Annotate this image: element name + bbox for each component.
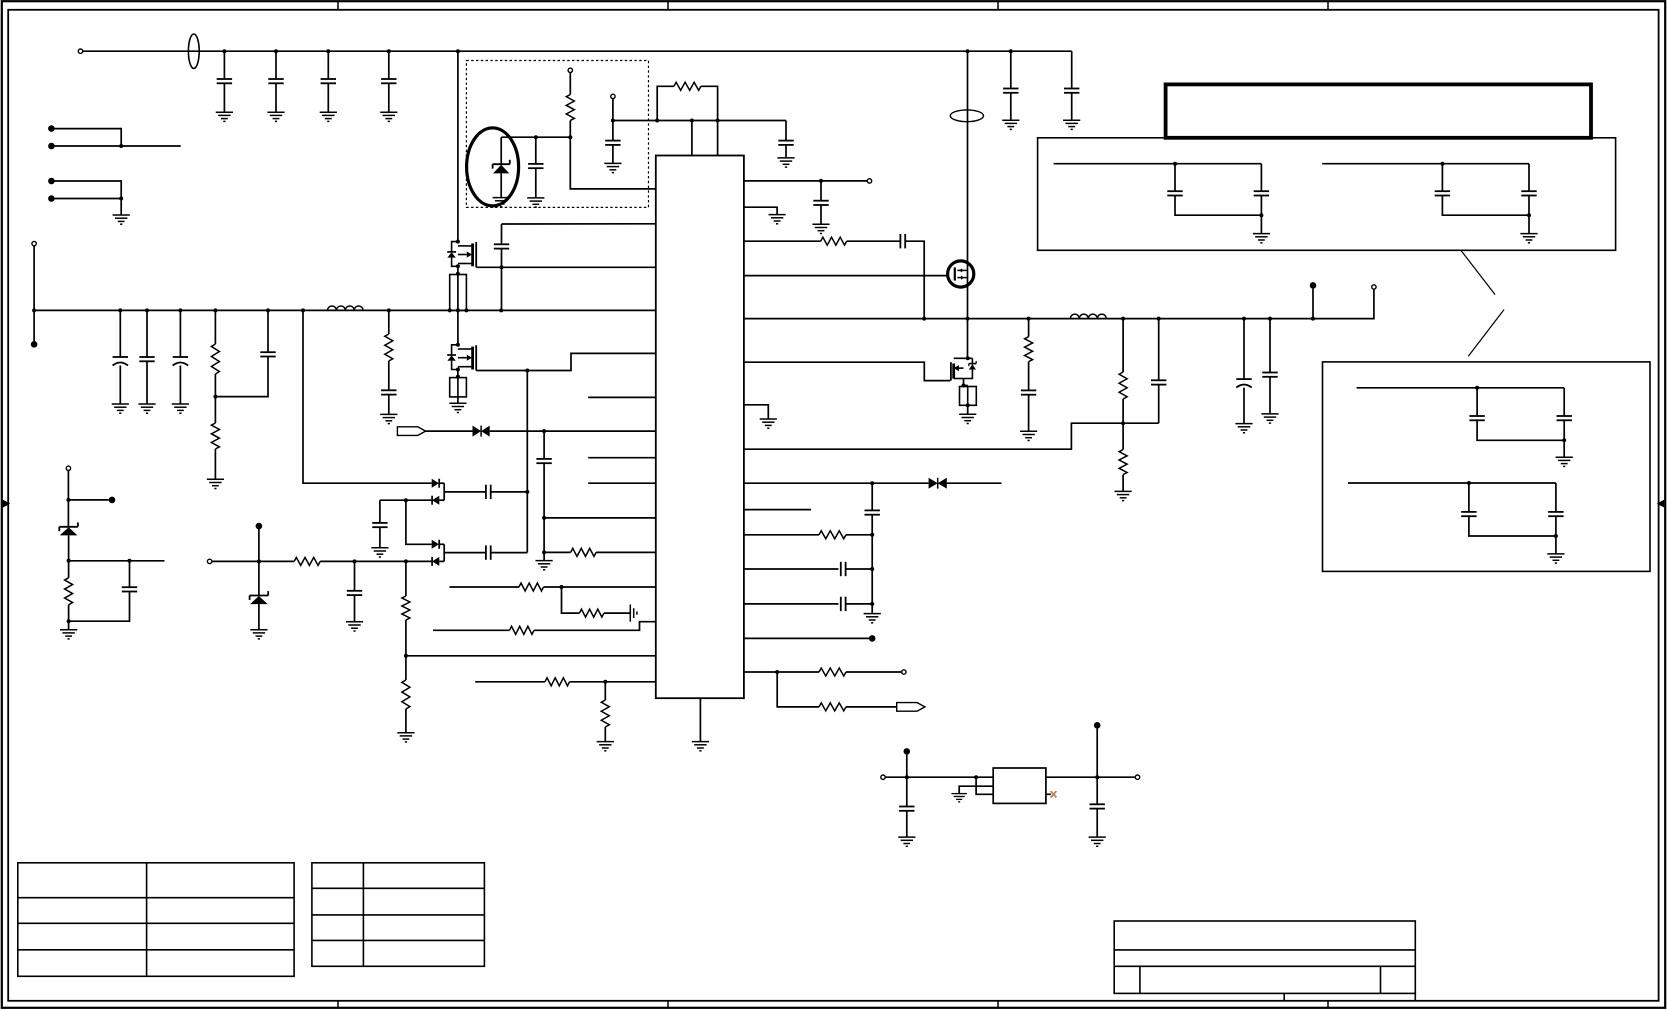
junction xyxy=(1259,213,1263,217)
capacitor C14 xyxy=(486,485,491,499)
wire xyxy=(701,86,718,155)
wire xyxy=(906,811,908,837)
wire xyxy=(604,682,606,700)
resistor R10 xyxy=(65,578,73,605)
ground xyxy=(1002,120,1019,129)
wire xyxy=(491,552,528,554)
wire xyxy=(596,551,656,553)
capacitor C20 xyxy=(605,141,620,145)
wire xyxy=(1348,482,1556,484)
wire xyxy=(1010,51,1012,88)
transistor Q1 body diode xyxy=(447,242,458,267)
diode D3b xyxy=(432,557,439,566)
junction xyxy=(213,308,217,312)
wire xyxy=(847,240,901,242)
junction xyxy=(534,135,538,139)
capacitor C1 xyxy=(217,79,232,83)
wire xyxy=(69,560,165,562)
junction xyxy=(603,680,607,684)
border zone tick (top) xyxy=(667,1,669,10)
capacitor C25 xyxy=(1151,380,1166,384)
resistor R14 xyxy=(579,609,604,617)
junction xyxy=(1121,421,1125,425)
wire xyxy=(439,482,444,484)
ground xyxy=(1235,424,1252,433)
resistor R23 xyxy=(819,531,846,539)
wire xyxy=(68,605,70,630)
wire xyxy=(258,529,260,596)
wire xyxy=(543,431,545,459)
resistor R7 xyxy=(294,557,320,565)
wire xyxy=(1312,289,1314,319)
junction xyxy=(500,265,504,269)
border zone tick (top) xyxy=(997,1,999,10)
wire xyxy=(388,83,390,112)
junction xyxy=(1440,162,1444,166)
junction xyxy=(1527,213,1531,217)
junction xyxy=(1157,317,1161,321)
junction xyxy=(1554,534,1558,538)
wire xyxy=(543,463,545,560)
wire xyxy=(1028,362,1030,391)
wire xyxy=(1122,399,1124,450)
transistor Q2 xyxy=(458,345,476,370)
wire xyxy=(744,603,839,605)
border center arrow (right) xyxy=(1657,500,1664,508)
ground xyxy=(1547,554,1564,563)
wire xyxy=(785,145,787,158)
wire xyxy=(146,310,148,357)
terminal P10 xyxy=(881,775,885,779)
wire xyxy=(544,517,656,519)
wire xyxy=(570,121,656,189)
wire xyxy=(777,672,819,707)
wire xyxy=(1260,196,1262,234)
wire xyxy=(51,145,180,147)
resistor R6 xyxy=(571,548,597,556)
junction xyxy=(966,356,970,360)
inductor L2 xyxy=(1070,314,1106,319)
junction xyxy=(560,585,564,589)
wire xyxy=(490,430,656,432)
wire xyxy=(1028,395,1030,432)
junction xyxy=(404,559,408,563)
capacitor C34 xyxy=(1254,191,1269,195)
wire xyxy=(604,612,630,614)
option box A xyxy=(1038,138,1616,251)
junction xyxy=(456,264,460,268)
wire xyxy=(275,51,277,79)
junction xyxy=(456,343,460,347)
wire xyxy=(905,241,924,318)
wire xyxy=(388,395,390,415)
revision table 1 xyxy=(18,863,294,977)
junction xyxy=(775,670,779,674)
capacitor C38 xyxy=(1557,416,1572,420)
net stub dot xyxy=(256,523,263,530)
wire xyxy=(1469,516,1556,536)
wire xyxy=(1555,483,1557,512)
wire xyxy=(604,727,606,742)
wire xyxy=(406,655,656,657)
capacitor C17 xyxy=(347,591,362,595)
wire xyxy=(500,173,502,197)
wire xyxy=(214,310,216,344)
junction xyxy=(128,559,132,563)
capacitor C8 xyxy=(139,357,154,361)
wire xyxy=(51,129,121,146)
capacitor C16 xyxy=(486,545,491,559)
junction xyxy=(464,308,468,312)
wire xyxy=(1476,388,1478,416)
wire xyxy=(379,500,381,523)
junction xyxy=(404,498,408,502)
terminal P11 xyxy=(1135,775,1139,779)
junction xyxy=(326,49,330,53)
junction xyxy=(266,308,270,312)
junction xyxy=(568,135,572,139)
ground xyxy=(138,404,155,413)
diode D3a xyxy=(432,540,440,549)
ground xyxy=(597,742,614,751)
wire xyxy=(1243,319,1245,380)
junction xyxy=(966,49,970,53)
capacitor C28 xyxy=(865,510,880,514)
ground xyxy=(397,733,414,742)
junction xyxy=(1467,481,1471,485)
wire xyxy=(535,137,537,164)
junction xyxy=(690,119,694,123)
capacitor C30 xyxy=(841,597,846,611)
capacitor C6 xyxy=(1064,89,1079,93)
capacitor C24 xyxy=(1021,390,1036,394)
junction xyxy=(499,308,503,312)
wire xyxy=(439,560,444,562)
wire xyxy=(820,205,822,224)
resistor R2 xyxy=(211,423,219,449)
wire xyxy=(457,370,459,378)
resistor R15 xyxy=(510,626,535,634)
wire xyxy=(501,249,503,268)
wire xyxy=(526,371,528,553)
title block xyxy=(1114,921,1415,1001)
transistor Q4 (packaged) xyxy=(948,261,974,287)
wire xyxy=(1260,164,1262,192)
border zone tick (bottom) xyxy=(997,1001,999,1008)
junction xyxy=(257,559,261,563)
ground xyxy=(527,198,544,207)
wire xyxy=(562,587,580,613)
terminal P4 xyxy=(66,466,70,470)
wire xyxy=(439,499,444,501)
junction xyxy=(819,179,823,183)
resistor R21 xyxy=(1119,372,1127,399)
wire Q1 gate xyxy=(476,266,656,268)
wire xyxy=(534,622,656,631)
wire xyxy=(744,482,929,484)
connector pin 3 xyxy=(48,178,55,185)
ground xyxy=(769,215,786,224)
wire xyxy=(379,527,381,548)
capacitor C29 xyxy=(841,562,846,576)
wire xyxy=(1046,793,1051,795)
wire xyxy=(744,180,867,182)
wire diode pair 2 common xyxy=(443,544,445,561)
wire xyxy=(959,786,993,793)
terminal P2 xyxy=(32,241,36,245)
wire xyxy=(1468,483,1470,512)
wire xyxy=(744,207,777,214)
ground xyxy=(216,112,233,121)
wire xyxy=(129,561,131,587)
wire xyxy=(846,568,872,570)
ground xyxy=(346,622,363,631)
net stub dot xyxy=(1310,282,1317,289)
option box B xyxy=(1323,362,1651,572)
wire xyxy=(212,560,294,562)
wire xyxy=(405,709,407,733)
wire xyxy=(1122,319,1124,372)
wire xyxy=(1322,163,1529,165)
wire xyxy=(744,534,819,536)
wire xyxy=(388,310,390,334)
wire xyxy=(406,500,432,544)
ground xyxy=(1115,491,1132,500)
ground xyxy=(812,224,829,233)
diode D2b xyxy=(432,496,439,505)
wire xyxy=(967,405,969,414)
ground xyxy=(449,403,466,412)
junction xyxy=(1121,317,1125,321)
wire xyxy=(657,86,674,120)
wire xyxy=(699,698,701,741)
junction xyxy=(611,119,615,123)
wire output bus xyxy=(744,289,1374,318)
wire xyxy=(426,430,473,432)
ground xyxy=(60,630,77,639)
wire xyxy=(457,266,459,310)
ground xyxy=(692,742,709,751)
net flag F1 xyxy=(397,427,425,436)
net stub dot xyxy=(31,341,38,348)
resistor R1 xyxy=(211,344,219,374)
wire xyxy=(275,83,277,112)
wire xyxy=(1441,164,1443,192)
wire xyxy=(1357,387,1565,389)
junction xyxy=(870,567,874,571)
inductor L1 xyxy=(328,306,364,310)
resistor R5 xyxy=(385,334,393,361)
wire xyxy=(947,482,1002,484)
wire xyxy=(214,449,216,479)
net stub dot xyxy=(1094,722,1101,729)
zener diode Z3 xyxy=(493,160,510,174)
wire xyxy=(1046,776,1135,778)
wire xyxy=(1174,164,1176,192)
transistor Q3 body diode xyxy=(964,358,977,378)
capacitor C35 xyxy=(1435,191,1450,195)
wire xyxy=(433,629,510,631)
resistor R12 xyxy=(674,82,701,90)
capacitor C9 (polarized) xyxy=(173,357,188,366)
callout line xyxy=(1468,310,1504,357)
wire xyxy=(535,168,537,198)
wire xyxy=(439,543,444,545)
capacitor C15 xyxy=(372,523,387,527)
wire xyxy=(846,534,872,536)
wire xyxy=(119,366,121,405)
junction xyxy=(456,240,460,244)
ground xyxy=(172,404,189,413)
highlight ellipse xyxy=(467,128,519,206)
ground xyxy=(113,215,130,224)
wire xyxy=(846,706,897,708)
wire xyxy=(1563,420,1565,457)
capacitor C10 xyxy=(260,352,275,356)
capacitor C40 xyxy=(1548,512,1563,516)
junction xyxy=(870,481,874,485)
wire xyxy=(501,136,570,138)
ground xyxy=(320,112,337,121)
ground xyxy=(380,112,397,121)
junction xyxy=(119,197,123,201)
wire xyxy=(1528,164,1530,192)
junction xyxy=(456,272,460,276)
resistor R16 xyxy=(545,678,570,686)
wire xyxy=(457,51,459,241)
junction xyxy=(387,308,391,312)
wire xyxy=(502,223,656,225)
ground xyxy=(371,548,388,557)
ground xyxy=(604,163,621,172)
wire xyxy=(744,405,768,419)
terminal P6 xyxy=(611,94,615,98)
wire main bus VIN xyxy=(34,309,656,311)
capacitor C31 xyxy=(899,807,914,811)
capacitor C3 xyxy=(321,79,336,83)
junction xyxy=(274,49,278,53)
wire xyxy=(354,595,356,622)
wire xyxy=(612,99,614,141)
junction xyxy=(1562,438,1566,442)
wire xyxy=(223,83,225,112)
wire NC stub xyxy=(588,482,656,484)
resistor R19 (box) xyxy=(960,386,977,406)
ground xyxy=(380,414,397,423)
junction xyxy=(542,516,546,520)
connector pin 2 xyxy=(48,143,55,150)
junction xyxy=(456,375,460,379)
wire Q3 gate xyxy=(744,362,950,380)
border zone tick (bottom) xyxy=(337,1001,339,1008)
ground xyxy=(959,414,976,423)
resistor R25 xyxy=(819,703,846,711)
terminal P7 xyxy=(867,179,871,183)
wire xyxy=(871,483,873,510)
connector pin 1 xyxy=(48,125,55,132)
wire xyxy=(1563,388,1565,416)
junction xyxy=(32,308,36,312)
wire NC stub xyxy=(588,457,656,459)
zener diode Z1 xyxy=(59,522,78,535)
junction xyxy=(962,384,966,388)
diode D2a xyxy=(432,479,440,488)
terminal P9 xyxy=(902,670,906,674)
wire xyxy=(457,397,459,403)
IC U1 xyxy=(656,156,744,699)
callout line xyxy=(1461,251,1495,295)
transistor Q2 body diode xyxy=(447,345,458,370)
diode D1 (bidirectional) xyxy=(473,426,490,437)
junction xyxy=(542,429,546,433)
capacitor C26 (polarized) xyxy=(1236,379,1251,388)
bold title box xyxy=(1166,84,1591,137)
junction xyxy=(974,775,978,779)
capacitor C19 xyxy=(528,164,543,168)
wire top rail xyxy=(83,50,1072,52)
resistor R13 xyxy=(519,583,544,591)
wire xyxy=(67,471,69,528)
junction xyxy=(1095,775,1099,779)
capacitor C36 xyxy=(1521,191,1536,195)
junction xyxy=(922,317,926,321)
junction xyxy=(716,119,720,123)
transistor Q3 xyxy=(951,358,973,380)
capacitor C13 xyxy=(536,459,551,463)
junction xyxy=(525,490,529,494)
junction xyxy=(67,559,71,563)
junction xyxy=(1475,386,1479,390)
resistor R20 xyxy=(1025,337,1033,362)
wire xyxy=(388,51,390,79)
transistor Q1 xyxy=(458,242,476,267)
wire xyxy=(405,561,407,596)
wire xyxy=(1028,319,1030,337)
wire xyxy=(146,361,148,404)
wire xyxy=(303,310,432,483)
wire xyxy=(354,561,356,590)
junction xyxy=(1268,317,1272,321)
capacitor C5 xyxy=(1003,89,1018,93)
ground xyxy=(1556,457,1573,466)
wire xyxy=(1158,319,1160,381)
junction xyxy=(66,498,70,502)
ground xyxy=(1020,431,1037,440)
resistor R22 xyxy=(1119,450,1127,475)
junction xyxy=(213,395,217,399)
wire xyxy=(1555,516,1557,554)
junction xyxy=(870,533,874,537)
wire NC stub xyxy=(744,509,811,511)
junction xyxy=(870,602,874,606)
wire xyxy=(744,240,821,242)
wire xyxy=(544,551,571,553)
wire xyxy=(1269,377,1271,414)
wire xyxy=(846,671,902,673)
resistor R4 (box) xyxy=(450,378,467,397)
terminal P1 xyxy=(78,49,82,53)
wire diode pair 1 common xyxy=(443,483,445,500)
junction xyxy=(905,775,909,779)
capacitor C22 xyxy=(813,201,828,205)
wire xyxy=(527,353,656,370)
wire xyxy=(1071,93,1073,120)
ground xyxy=(864,614,881,623)
wire xyxy=(569,73,571,95)
wire xyxy=(1158,385,1160,424)
capacitor C27 xyxy=(1262,373,1277,377)
wire xyxy=(500,137,502,164)
